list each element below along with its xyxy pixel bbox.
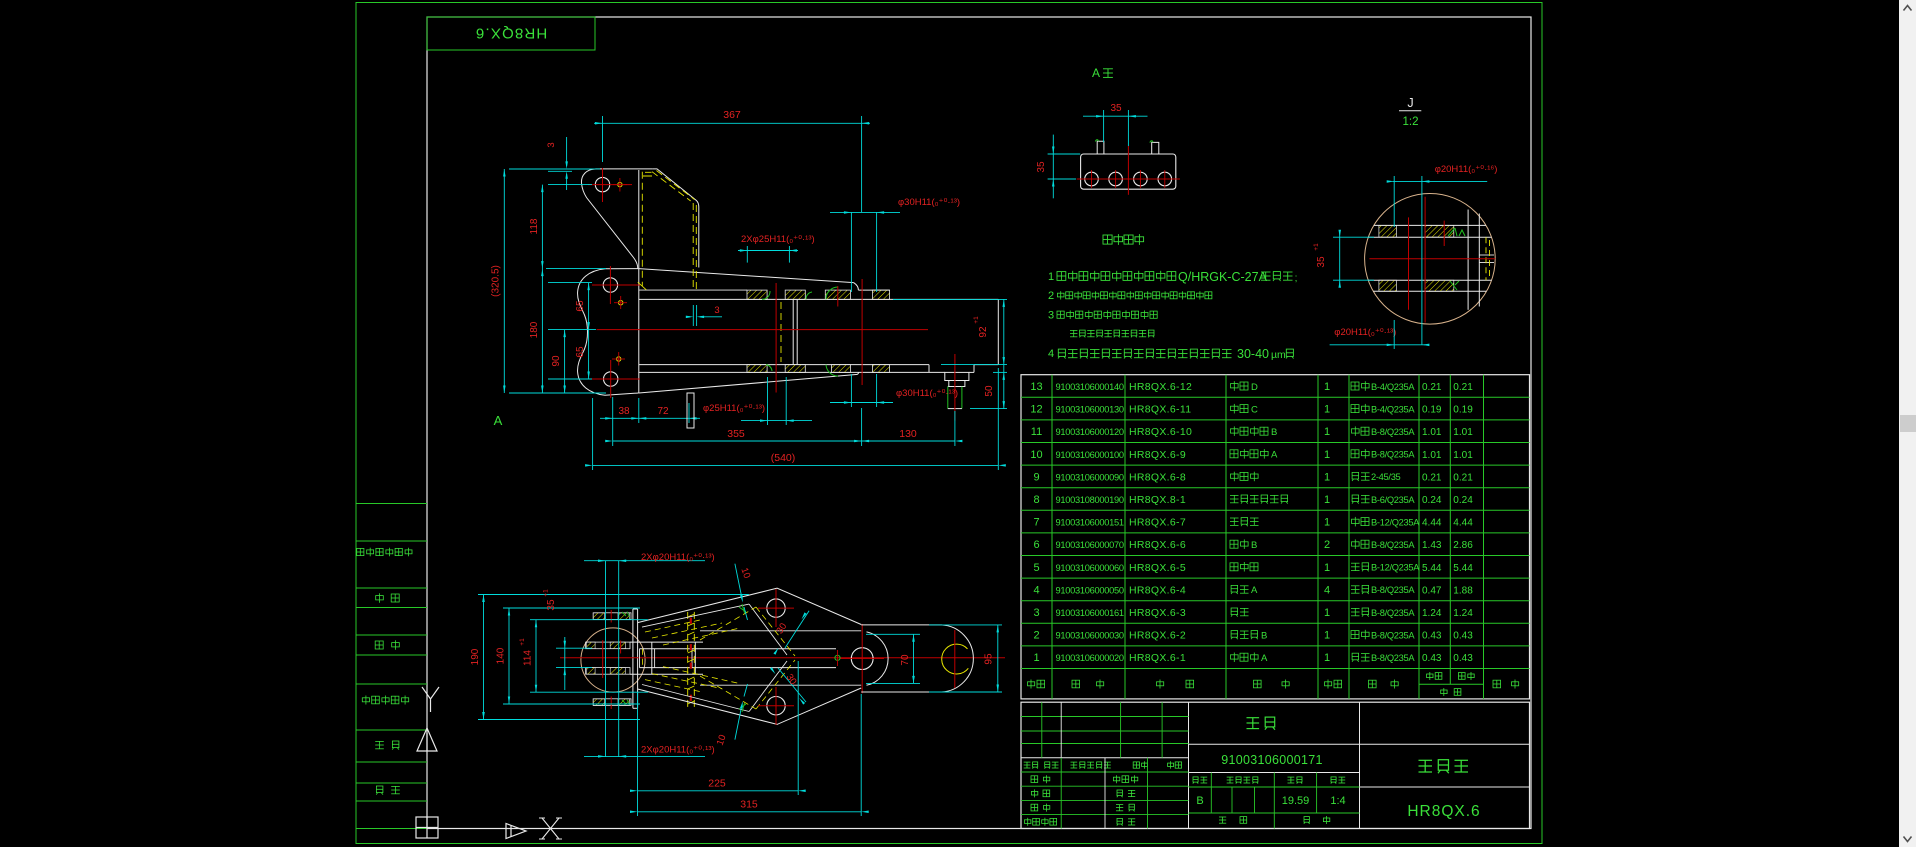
svg-text:B-8/Q235A: B-8/Q235A xyxy=(1371,427,1415,437)
svg-text:0.19: 0.19 xyxy=(1422,405,1442,416)
svg-text:91003106000060: 91003106000060 xyxy=(1056,563,1124,573)
title jiaodui label xyxy=(1031,789,1049,797)
plan mid red ticks xyxy=(602,640,604,678)
bottom plate hatched sections xyxy=(747,365,767,373)
dim (540) bottom xyxy=(592,398,594,470)
plan rib end green tick top xyxy=(739,604,746,613)
detail J hatch blocks xyxy=(1379,225,1397,237)
plan middle hole xyxy=(851,648,873,670)
A view tab green ticks xyxy=(1095,140,1098,142)
detail J lower plate lines xyxy=(1368,279,1491,281)
title scale subtable xyxy=(1210,773,1212,814)
BOM header xuhao xyxy=(1028,680,1045,689)
svg-text:HR8QX.6-1: HR8QX.6-1 xyxy=(1129,652,1186,664)
A view dim 35 left xyxy=(1048,153,1081,155)
side view red vertical centerline phi25 right short xyxy=(837,286,839,306)
svg-text:1.43: 1.43 xyxy=(1422,540,1442,551)
svg-text:5: 5 xyxy=(1033,562,1039,574)
top ear hole xyxy=(595,177,609,191)
side view bottom plate top edge xyxy=(639,364,929,366)
svg-text:0.43: 0.43 xyxy=(1453,631,1473,642)
plan dim 30 bottom xyxy=(778,668,806,702)
detail J pin end lines xyxy=(1479,254,1494,256)
plan hexagon outline xyxy=(638,588,862,724)
side view top slanted face xyxy=(639,269,854,283)
scrollbar thumb xyxy=(1900,415,1916,432)
svg-text:2: 2 xyxy=(1324,539,1330,551)
svg-text:91003106000070: 91003106000070 xyxy=(1056,540,1124,550)
title diye label xyxy=(1304,817,1310,824)
svg-text:1.24: 1.24 xyxy=(1453,608,1473,619)
plan dim 315 xyxy=(637,795,639,816)
svg-text:0.21: 0.21 xyxy=(1453,472,1473,483)
A view red centerline horizontal xyxy=(1077,178,1180,180)
svg-text:91003106000120: 91003106000120 xyxy=(1056,427,1124,437)
svg-text:90: 90 xyxy=(551,355,562,367)
lug hole lower xyxy=(604,372,618,386)
svg-text:B: B xyxy=(1251,540,1257,551)
svg-text:13: 13 xyxy=(1030,381,1042,393)
X mark symbol xyxy=(539,818,562,839)
flag triangle symbol xyxy=(417,728,437,751)
tech requirements title xyxy=(1103,234,1144,245)
svg-text:91003106000171: 91003106000171 xyxy=(1221,753,1323,767)
plan view boss tan circle xyxy=(581,628,645,692)
svg-text:A: A xyxy=(1251,585,1258,596)
svg-text:1: 1 xyxy=(1324,607,1330,619)
left margin label jiuditu xyxy=(362,696,408,705)
svg-text:1: 1 xyxy=(1324,630,1330,642)
svg-text:0.19: 0.19 xyxy=(1453,405,1473,416)
svg-text:1: 1 xyxy=(1324,652,1330,664)
svg-text:1.88: 1.88 xyxy=(1453,585,1473,596)
side view top plate bottom edge xyxy=(639,298,999,300)
svg-text:B-8/Q235A: B-8/Q235A xyxy=(1371,450,1415,460)
svg-text:0.21: 0.21 xyxy=(1453,382,1473,393)
svg-text:130: 130 xyxy=(899,428,917,440)
svg-text:38: 38 xyxy=(618,406,630,417)
svg-text:1: 1 xyxy=(1324,517,1330,529)
svg-text:C: C xyxy=(1251,404,1258,415)
A view tab left xyxy=(1097,141,1104,154)
title block outer border xyxy=(1021,702,1530,828)
lug weld marker lower xyxy=(617,357,621,361)
dim 355 bottom xyxy=(861,408,863,446)
svg-text:A: A xyxy=(1261,653,1268,664)
plan rib hidden yellow top xyxy=(645,620,700,632)
weld bevel green arcs bottom xyxy=(826,365,838,376)
dim 65 upper xyxy=(588,283,590,330)
dim 65 lower xyxy=(588,330,590,379)
svg-text:3: 3 xyxy=(1048,310,1054,322)
detail J boundary circle tan xyxy=(1365,193,1496,324)
svg-text:1.01: 1.01 xyxy=(1453,450,1473,461)
top ear weld marker xyxy=(618,182,622,186)
svg-text:1.24: 1.24 xyxy=(1422,608,1442,619)
svg-text:2Xφ20H11(₀⁺⁰·¹³): 2Xφ20H11(₀⁺⁰·¹³) xyxy=(641,745,715,756)
lug hole lower centerlines xyxy=(592,378,640,380)
svg-text:B: B xyxy=(1271,427,1277,438)
svg-text:35: 35 xyxy=(1316,256,1327,268)
svg-text:114: 114 xyxy=(523,650,534,666)
plan tongue outline xyxy=(861,624,941,626)
svg-text:φ25H11(₀⁺⁰·¹³): φ25H11(₀⁺⁰·¹³) xyxy=(703,403,765,414)
lug hole upper xyxy=(603,278,617,292)
svg-text:0.43: 0.43 xyxy=(1422,631,1442,642)
svg-text:65: 65 xyxy=(575,346,586,358)
side view main horizontal centerline xyxy=(597,329,928,331)
svg-text:A: A xyxy=(494,413,503,428)
top plate hatched sections xyxy=(747,290,767,299)
svg-text:92: 92 xyxy=(978,326,989,338)
svg-text:225: 225 xyxy=(708,778,726,790)
A view dim 35 top xyxy=(1103,110,1105,142)
svg-text:HR8QX.8-1: HR8QX.8-1 xyxy=(1129,494,1186,506)
svg-text:19.59: 19.59 xyxy=(1282,795,1310,807)
svg-text:8: 8 xyxy=(1033,494,1039,506)
svg-text:3: 3 xyxy=(714,305,719,316)
svg-text:35: 35 xyxy=(1036,161,1047,173)
svg-text:91003106000161: 91003106000161 xyxy=(1056,608,1124,618)
weld bevel green arcs top xyxy=(762,291,770,299)
side view bottom slanted face xyxy=(639,374,858,393)
svg-text:91003106000050: 91003106000050 xyxy=(1056,585,1124,595)
detail J right vertical plate xyxy=(1467,210,1469,310)
small white tab under body xyxy=(687,393,694,428)
title lianjiebi cell xyxy=(1360,743,1530,745)
detail J red verticals xyxy=(1408,217,1410,309)
svg-text:91003106000140: 91003106000140 xyxy=(1056,382,1124,392)
left margin label riqi xyxy=(376,786,400,795)
svg-text:1.01: 1.01 xyxy=(1422,427,1442,438)
svg-text:7: 7 xyxy=(1033,517,1039,529)
plan top hatch red tick xyxy=(610,610,612,623)
svg-text:70: 70 xyxy=(900,654,911,666)
svg-text:315: 315 xyxy=(740,799,758,811)
svg-text:91003106000100: 91003106000100 xyxy=(1056,450,1124,460)
side view bottom step xyxy=(928,365,930,373)
title biaoji row labels xyxy=(1024,762,1038,769)
svg-text:367: 367 xyxy=(723,109,741,121)
svg-text:91003106000090: 91003106000090 xyxy=(1056,472,1124,482)
BOM header daihao xyxy=(1157,680,1194,689)
svg-text:91003108000190: 91003108000190 xyxy=(1056,495,1124,505)
plan top hatch green mark xyxy=(622,612,630,618)
BOM header cailiao xyxy=(1369,680,1399,689)
plan rib end green tick bottom xyxy=(739,703,746,712)
svg-text:2Xφ20H11(₀⁺⁰·¹³): 2Xφ20H11(₀⁺⁰·¹³) xyxy=(641,552,715,563)
scrollbar up arrow xyxy=(1904,6,1912,11)
svg-text:3: 3 xyxy=(1033,607,1039,619)
plan small hole top xyxy=(767,599,785,617)
svg-text:+1: +1 xyxy=(519,638,526,646)
plan tongue tip red cross xyxy=(954,630,956,688)
title hanjian cell xyxy=(1189,743,1360,745)
svg-text:4.44: 4.44 xyxy=(1453,518,1473,529)
A view holes xyxy=(1085,172,1099,186)
A view tab right xyxy=(1152,142,1159,154)
svg-text:1: 1 xyxy=(1324,449,1330,461)
svg-text:HR8QX.6-10: HR8QX.6-10 xyxy=(1129,426,1192,438)
datum Y symbol xyxy=(422,687,439,712)
svg-text:1.01: 1.01 xyxy=(1453,427,1473,438)
A view body xyxy=(1081,154,1176,189)
scrollbar down arrow xyxy=(1904,837,1912,842)
title shending label xyxy=(1117,790,1135,797)
title biaozhunhua label xyxy=(1113,775,1137,783)
dim 130 bottom xyxy=(954,411,956,446)
plan dim 35 xyxy=(556,647,592,649)
svg-text:φ30H11(₀⁺⁰·¹³): φ30H11(₀⁺⁰·¹³) xyxy=(898,197,960,208)
svg-text:(320.5): (320.5) xyxy=(491,265,502,297)
BOM header mingcheng xyxy=(1254,680,1290,689)
svg-text:(540): (540) xyxy=(771,452,796,464)
dim 90 left xyxy=(564,330,566,393)
svg-text:180: 180 xyxy=(529,321,540,338)
svg-text:;: ; xyxy=(1295,273,1298,284)
inner white frame xyxy=(427,17,1531,829)
dim (320.5) far left xyxy=(503,169,505,393)
title tuyangbiaoji label xyxy=(1227,777,1258,784)
svg-text:HR8QX.6-6: HR8QX.6-6 xyxy=(1129,539,1186,551)
svg-text:1: 1 xyxy=(1324,404,1330,416)
title gongyi label xyxy=(1025,818,1057,826)
sheet outer green border xyxy=(356,3,1542,844)
plan dim 2Xphi20 bottom xyxy=(584,755,705,757)
svg-text:1:4: 1:4 xyxy=(1330,795,1345,807)
left margin label qianzi xyxy=(375,741,399,750)
plan ladder red ticks xyxy=(690,618,692,624)
svg-text:1:2: 1:2 xyxy=(1403,116,1419,128)
top ear hole centerlines xyxy=(588,184,632,186)
title bili label xyxy=(1331,777,1345,784)
svg-text:0.24: 0.24 xyxy=(1453,495,1473,506)
svg-text:91003106000020: 91003106000020 xyxy=(1056,653,1124,663)
side view top plate top edge xyxy=(858,289,889,291)
title left lower grid xyxy=(1021,771,1189,773)
svg-text:1.01: 1.01 xyxy=(1422,450,1442,461)
plan dim 2Xphi20 top xyxy=(605,561,607,757)
svg-text:B: B xyxy=(1261,630,1267,641)
tech requirements line 4 xyxy=(1070,330,1154,337)
plan dim 70 xyxy=(866,633,920,635)
svg-text:35: 35 xyxy=(1110,103,1122,114)
plan bottom hatch green mark xyxy=(622,700,630,706)
svg-text:4: 4 xyxy=(1033,584,1039,596)
svg-text:5.44: 5.44 xyxy=(1422,563,1442,574)
svg-text:B-8/Q235A: B-8/Q235A xyxy=(1371,540,1415,550)
svg-text:30-40: 30-40 xyxy=(1237,347,1269,361)
svg-text:HR8QX.6-8: HR8QX.6-8 xyxy=(1129,471,1186,483)
svg-text:2: 2 xyxy=(1033,630,1039,642)
ext line y268 left of lug xyxy=(546,268,606,270)
plan X rib white diagonals xyxy=(749,604,787,655)
svg-text:B-6/Q235A: B-6/Q235A xyxy=(1371,495,1415,505)
top-left part-code box xyxy=(427,17,595,50)
side view body left edge xyxy=(638,269,640,393)
dim 3 mid xyxy=(692,305,694,326)
plan plate double edge short xyxy=(639,649,641,668)
svg-text:72: 72 xyxy=(657,406,669,417)
plan bottom hatch block xyxy=(593,699,631,706)
svg-text:0.47: 0.47 xyxy=(1422,585,1442,596)
svg-text:190: 190 xyxy=(470,648,481,665)
title sheji label xyxy=(1031,775,1050,783)
plan bottom hatch red tick xyxy=(610,697,612,710)
title riqi label xyxy=(1117,818,1135,825)
lug weld marker upper xyxy=(619,301,623,305)
riser bracket right profile xyxy=(653,169,699,268)
svg-text:B-4/Q235A: B-4/Q235A xyxy=(1371,404,1415,414)
left margin column boxes xyxy=(356,503,427,505)
svg-text:B-8/Q235A: B-8/Q235A xyxy=(1371,585,1415,595)
svg-text:φ30H11(₀⁺⁰·¹³): φ30H11(₀⁺⁰·¹³) xyxy=(896,388,958,399)
BOM header bianma xyxy=(1072,680,1104,689)
svg-text:HR8QX.6-9: HR8QX.6-9 xyxy=(1129,449,1186,461)
left margin label jieyong xyxy=(357,548,412,557)
svg-text:1: 1 xyxy=(1033,652,1039,664)
svg-text:1: 1 xyxy=(1324,471,1330,483)
inner tube hidden wall yellow xyxy=(780,302,782,362)
svg-text:0.43: 0.43 xyxy=(1453,653,1473,664)
plan mid strip upper xyxy=(586,642,630,649)
svg-text:355: 355 xyxy=(727,428,745,440)
svg-text:2.86: 2.86 xyxy=(1453,540,1473,551)
A view red centerline vertical xyxy=(1127,146,1129,195)
side view red vertical centerline phi30 xyxy=(861,279,863,385)
svg-text:4.44: 4.44 xyxy=(1422,518,1442,529)
svg-text:2-45/35: 2-45/35 xyxy=(1371,472,1401,482)
riser hidden lines yellow xyxy=(641,172,643,286)
plan tongue tip yellow arc xyxy=(942,644,969,674)
svg-text:HR8QX.6: HR8QX.6 xyxy=(475,25,548,42)
svg-text:0.21: 0.21 xyxy=(1422,382,1442,393)
side view bottom plate bottom edge xyxy=(639,371,945,373)
title left upper verticals xyxy=(1041,702,1043,758)
inner tube walls between plates xyxy=(792,299,794,364)
plan dim 95 xyxy=(929,624,1002,626)
BOM row lines xyxy=(1021,396,1530,398)
detail J upper plate lines xyxy=(1374,224,1486,226)
svg-text:1: 1 xyxy=(1048,271,1054,283)
plan dim 225 xyxy=(637,692,639,795)
svg-text:HR8QX.6-4: HR8QX.6-4 xyxy=(1129,584,1186,596)
dim 50 right xyxy=(970,408,1007,410)
plan tube rectangle xyxy=(651,642,653,674)
svg-text:HR8QX.6-7: HR8QX.6-7 xyxy=(1129,517,1186,529)
svg-text:Q/HRGK-C-27A: Q/HRGK-C-27A xyxy=(1178,270,1268,284)
plan rib hidden yellow bottom xyxy=(645,680,700,692)
svg-text:1: 1 xyxy=(1324,562,1330,574)
svg-text:5.44: 5.44 xyxy=(1453,563,1473,574)
svg-text:9: 9 xyxy=(1033,471,1039,483)
svg-text:A: A xyxy=(1092,66,1100,80)
svg-text:65: 65 xyxy=(575,300,586,312)
dim 92 right xyxy=(893,298,1007,300)
svg-text:1: 1 xyxy=(1324,381,1330,393)
svg-text:HR8QX.6-11: HR8QX.6-11 xyxy=(1129,404,1191,416)
svg-text:35: 35 xyxy=(546,599,557,611)
detail J green weld marks xyxy=(1448,228,1457,236)
scrollbar track xyxy=(1899,0,1916,847)
plan view vertical lug plate edge xyxy=(632,609,634,708)
svg-text:HR8QX.6-5: HR8QX.6-5 xyxy=(1129,562,1186,574)
plan dim 140 xyxy=(503,607,640,609)
svg-text:4: 4 xyxy=(1324,584,1330,596)
bolt stud right bottom xyxy=(945,372,969,380)
svg-text:2: 2 xyxy=(1048,290,1054,302)
plan top hatch block xyxy=(593,613,631,620)
corner square registration mark xyxy=(416,817,438,838)
plan dim 30 top xyxy=(785,611,809,648)
plan mid strip lower xyxy=(586,668,630,675)
BOM header zhongliang xyxy=(1441,688,1461,696)
dim 118 and 180 left xyxy=(541,185,543,393)
plan hexagon inner rib lines xyxy=(642,604,749,627)
third-angle projection triangle symbol xyxy=(506,824,526,839)
svg-text:0.24: 0.24 xyxy=(1422,495,1442,506)
stud centerline red xyxy=(954,354,956,421)
dim 367 top xyxy=(602,116,604,162)
title pizhun label xyxy=(1116,804,1135,811)
svg-text:HR8QX.6-2: HR8QX.6-2 xyxy=(1129,630,1186,642)
svg-text:B-8/Q235A: B-8/Q235A xyxy=(1371,630,1415,640)
svg-text:91003106000030: 91003106000030 xyxy=(1056,631,1124,641)
svg-text:4: 4 xyxy=(1048,348,1054,360)
svg-text:J: J xyxy=(1407,96,1413,110)
plan dim 190 xyxy=(478,594,749,596)
svg-text:D: D xyxy=(1251,382,1258,393)
detail J red horizontal centerline xyxy=(1369,258,1495,260)
plan rib hidden yellow X xyxy=(756,607,795,656)
left margin label miaojiao xyxy=(375,640,399,650)
svg-text:µm: µm xyxy=(1271,349,1286,361)
svg-text:50: 50 xyxy=(984,385,995,397)
svg-text:B-8/Q235A: B-8/Q235A xyxy=(1371,653,1415,663)
svg-text:φ20H11(₀⁺⁰·¹³): φ20H11(₀⁺⁰·¹³) xyxy=(1334,327,1396,338)
svg-text:+1: +1 xyxy=(973,316,980,324)
detail J yellow hidden right xyxy=(1485,237,1487,280)
svg-text:1: 1 xyxy=(1324,494,1330,506)
plan middle boss arc xyxy=(867,632,889,685)
lug hole upper centerlines xyxy=(592,284,640,286)
svg-text:B-4/Q235A: B-4/Q235A xyxy=(1371,382,1415,392)
BOM outer border xyxy=(1021,375,1530,699)
title zhongliang label xyxy=(1288,777,1303,784)
svg-text:B-12/Q235A: B-12/Q235A xyxy=(1371,563,1420,573)
title banben label xyxy=(1193,777,1207,784)
svg-text:B-12/Q235A: B-12/Q235A xyxy=(1371,517,1420,527)
svg-text:HR8QX.6: HR8QX.6 xyxy=(1407,803,1480,820)
svg-text:12: 12 xyxy=(1030,404,1042,416)
BOM header split line xyxy=(1021,668,1530,670)
svg-text:2Xφ25H11(₀⁺⁰·¹³): 2Xφ25H11(₀⁺⁰·¹³) xyxy=(741,234,815,245)
svg-text:6: 6 xyxy=(1033,539,1039,551)
plan small hole bottom xyxy=(767,697,785,715)
dim 38 bottom xyxy=(612,397,614,446)
svg-text:118: 118 xyxy=(529,218,540,234)
svg-text:B: B xyxy=(1196,795,1203,807)
svg-text:+1: +1 xyxy=(543,589,550,597)
top ear plate outline xyxy=(581,169,652,269)
dim 3 top small xyxy=(545,168,600,170)
threaded stud xyxy=(948,386,962,388)
plan dim 114 xyxy=(530,619,648,621)
svg-text:95: 95 xyxy=(984,653,995,665)
plan green weld dot xyxy=(835,655,840,660)
title block left upper grid xyxy=(1021,716,1189,718)
BOM header zongji xyxy=(1458,672,1474,680)
